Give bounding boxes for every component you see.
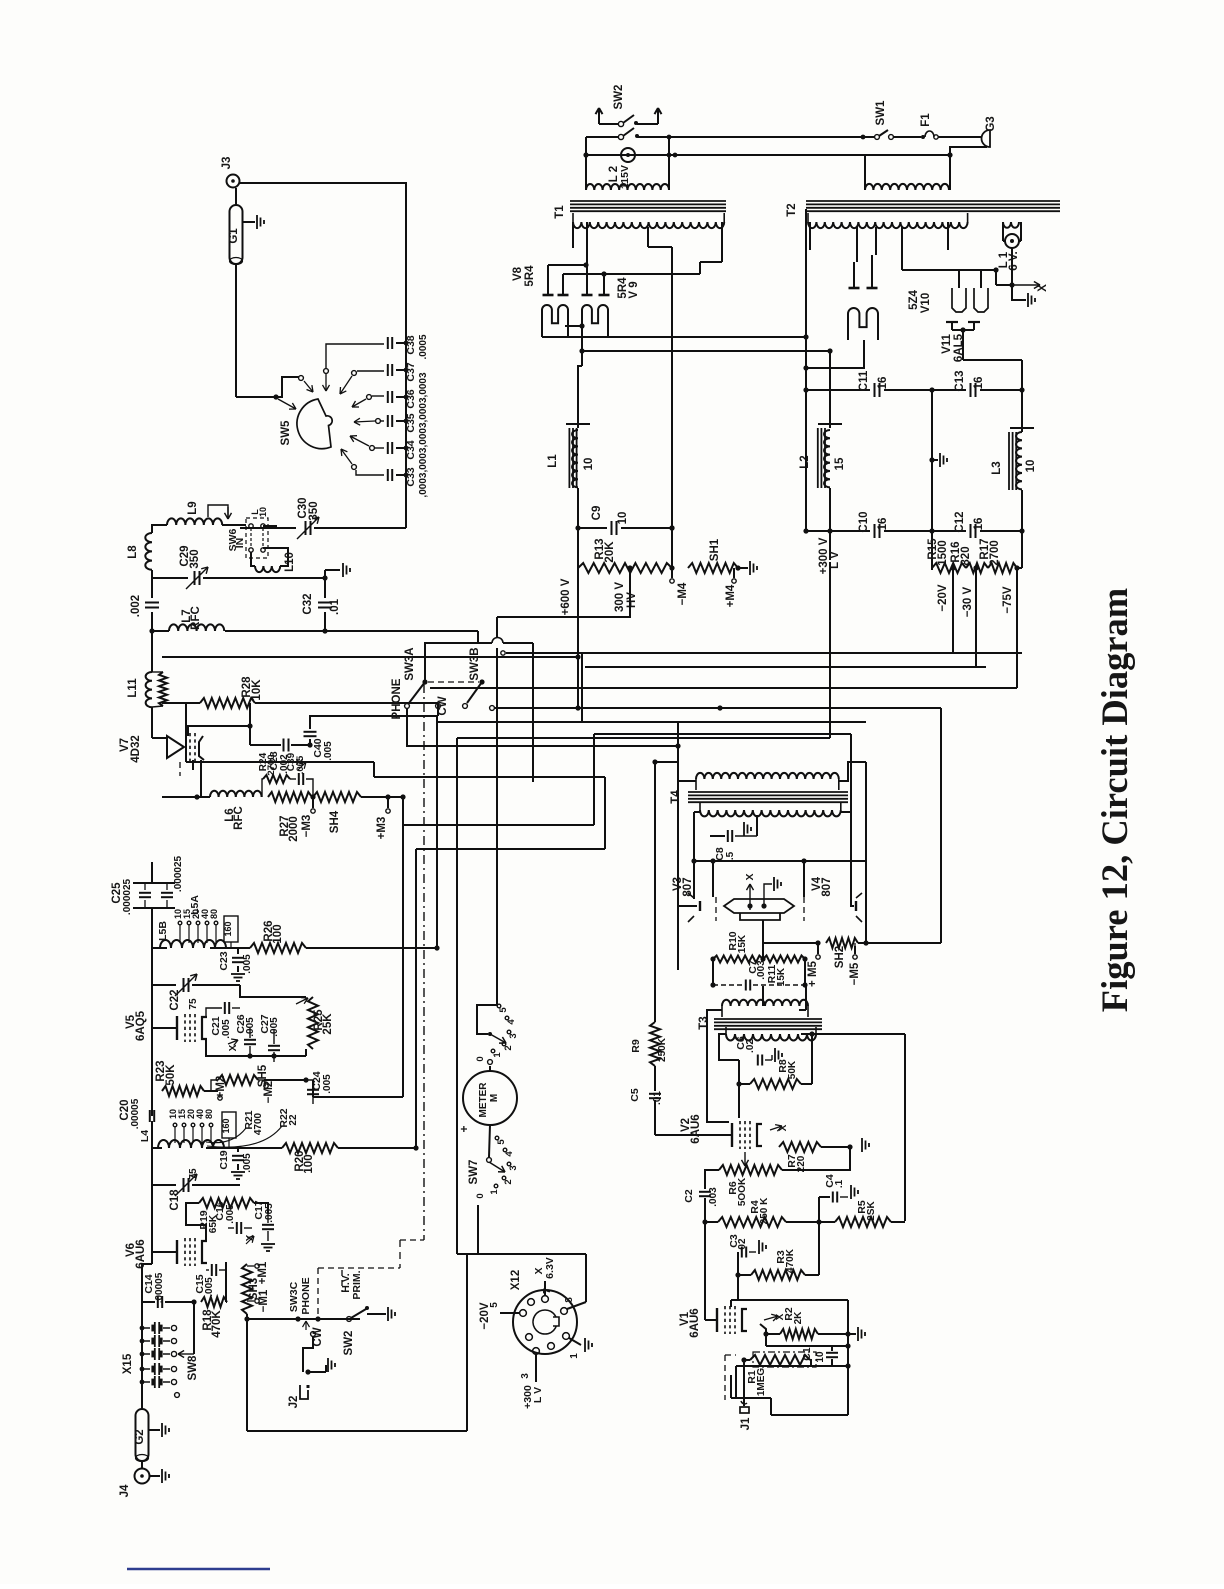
svg-text:L5A: L5A (189, 895, 201, 915)
wire SW7 to X12 box (477, 1205, 479, 1254)
capacitor C38 .0005 (387, 337, 389, 349)
meter M (463, 1071, 517, 1125)
ground near lamp (1012, 285, 1026, 300)
resistor R19 65K (199, 1198, 254, 1208)
variable capacitor C18 75 (151, 1148, 153, 1185)
capacitor C40 .005 (309, 739, 311, 745)
SW5 selector contact C36 (372, 395, 384, 397)
SW5 rotor input wires (236, 396, 276, 398)
transformer T1 primary (586, 184, 669, 190)
svg-text:3: 3 (508, 1033, 519, 1038)
wire SW6 to C30 line (263, 526, 276, 528)
svg-text:5Z4: 5Z4 (908, 289, 920, 309)
X12 pin7 6.3V lead (544, 1281, 546, 1295)
labels +600V 300V HV (577, 568, 579, 600)
V7 grid connections (188, 726, 250, 736)
capacitor C39 .005 (298, 773, 300, 785)
svg-text:5R4: 5R4 (524, 265, 536, 287)
svg-text:T1: T1 (554, 205, 566, 219)
svg-text:5: 5 (496, 1139, 507, 1145)
screen resistor R23 50K (162, 1086, 204, 1096)
svg-text:SW5: SW5 (280, 420, 292, 446)
svg-text:350: 350 (308, 501, 320, 520)
svg-text:−20V: −20V (479, 1302, 491, 1330)
svg-text:8: 8 (564, 1297, 575, 1303)
T3 core (714, 1018, 822, 1020)
svg-text:−M3: −M3 (301, 815, 313, 838)
svg-text:SH2: SH2 (834, 946, 846, 968)
resistor R24 2700 (263, 775, 290, 783)
svg-text:.00005: .00005 (130, 1098, 141, 1129)
V1 cathode to R2 (760, 1324, 766, 1346)
X arrow V1 (764, 1316, 778, 1320)
svg-text:+: + (457, 1125, 471, 1132)
svg-text:.005: .005 (242, 1153, 253, 1173)
fuse F1 (921, 135, 925, 139)
svg-text:L1: L1 (547, 454, 559, 468)
svg-text:L9: L9 (187, 501, 199, 514)
T4 core (688, 791, 848, 793)
svg-text:RFC: RFC (233, 806, 245, 830)
capacitor .002 (C31) (151, 578, 153, 598)
svg-text:SW1: SW1 (875, 100, 887, 126)
wire SH2 to bias rails (940, 708, 942, 943)
svg-text:6AU6: 6AU6 (689, 1308, 701, 1337)
svg-text:.000025: .000025 (122, 878, 133, 915)
svg-text:6 V.: 6 V. (1008, 251, 1020, 270)
svg-text:.01: .01 (329, 598, 341, 615)
variable capacitor C29 350 (152, 577, 188, 579)
svg-text:V8: V8 (512, 266, 524, 281)
svg-text:75: 75 (188, 1168, 199, 1180)
svg-text:V11: V11 (941, 333, 953, 353)
svg-text:PHONE: PHONE (391, 678, 403, 719)
V8/V9 cathode join (565, 325, 582, 327)
V1 cathode box right (847, 1300, 849, 1415)
jack J2 (303, 1337, 313, 1372)
SW7 upper wafer (488, 1060, 493, 1065)
bias bus y653 (501, 651, 505, 655)
transformer T1 core (570, 200, 726, 202)
svg-text:C32: C32 (302, 593, 314, 614)
V1 cathode box top (731, 1299, 848, 1301)
svg-text:10: 10 (583, 458, 595, 471)
svg-text:.005: .005 (323, 741, 334, 761)
svg-text:SH1: SH1 (709, 538, 721, 561)
V11 plate ties (958, 270, 960, 288)
svg-text:6.3V: 6.3V (544, 1257, 556, 1279)
capacitor C24 .005 (264, 1079, 306, 1081)
svg-text:C19: C19 (218, 1150, 230, 1169)
V10 cathode wire to L2 choke (806, 340, 864, 368)
ground J2 (305, 1369, 310, 1374)
keying bus left leg (246, 1319, 248, 1431)
svg-text:16: 16 (877, 518, 889, 531)
shunt SH3 (vertical) (242, 1264, 252, 1314)
svg-text:C35: C35 (405, 413, 417, 432)
feedback line from R5 (904, 1034, 906, 1221)
+300 LV bus y738 (457, 737, 830, 739)
capacitor C21 .005 (206, 1008, 222, 1018)
spare contact (175, 1393, 180, 1398)
svg-text:J3: J3 (221, 157, 233, 170)
svg-text:X: X (775, 1313, 786, 1320)
svg-text:4: 4 (506, 1019, 517, 1025)
connector G3 (982, 130, 990, 147)
V3/V4 cathode racetrack (724, 899, 794, 913)
switch SW2 lower pole (586, 136, 618, 138)
capacitor C16 .005 (236, 1222, 238, 1234)
SW5 selector contact C35 (381, 420, 384, 422)
PA plate choke L11 (151, 631, 153, 672)
wire J3 to tank (239, 183, 406, 343)
ground C29 bus (325, 569, 340, 571)
svg-text:L5B: L5B (157, 921, 169, 941)
wire 300V HV feed to meter line (497, 600, 630, 617)
svg-text:,0003,0003,0003,0003,0003: ,0003,0003,0003,0003,0003 (418, 372, 429, 498)
transformer T1 secondary (573, 222, 724, 228)
variable capacitor C30 350 (305, 521, 307, 535)
blue rule bottom left (127, 1568, 270, 1571)
ground G2 (149, 1429, 160, 1431)
svg-text:2K: 2K (793, 1311, 804, 1325)
svg-text:X: X (778, 1124, 789, 1131)
+300V LV rail (829, 488, 831, 560)
svg-text:.005: .005 (295, 755, 306, 774)
wire T1 HV secondary right leg down (671, 262, 673, 528)
svg-text:T3: T3 (698, 1016, 710, 1029)
svg-text:X15: X15 (122, 1353, 134, 1374)
wire SW3A common up (425, 631, 478, 682)
bottom bus wire (247, 1430, 467, 1432)
svg-text:R9: R9 (630, 1039, 642, 1053)
X12 pin3 +300 LV lead (535, 1354, 537, 1382)
rectifier V8 5R4 plates (543, 294, 554, 297)
svg-text:C36: C36 (405, 389, 417, 408)
shunt SH5 (218, 1075, 258, 1085)
crossover hop (478, 642, 492, 644)
svg-text:16: 16 (877, 377, 889, 390)
X12 pin5 -20V lead (500, 1312, 519, 1314)
L9 tap arrow (208, 505, 228, 517)
T1 secondary taps (572, 222, 574, 248)
ground center bus (929, 457, 934, 462)
svg-text:.00005: .00005 (154, 1272, 165, 1303)
svg-text:PRIM.: PRIM. (351, 1270, 363, 1299)
bias bus y688 (430, 687, 1017, 689)
svg-text:IN: IN (234, 538, 246, 549)
meter lead +M1 (247, 1265, 254, 1267)
wire L8 bottom to C29 (151, 570, 153, 578)
svg-text:1: 1 (569, 1353, 580, 1359)
transformer T3 primary (722, 1000, 808, 1006)
V2 cathode feedback riser (738, 1084, 740, 1118)
svg-text:+M3: +M3 (376, 817, 388, 840)
svg-text:+600 V: +600 V (560, 578, 572, 615)
svg-text:J4: J4 (119, 1484, 131, 1497)
svg-text:5: 5 (498, 1007, 509, 1013)
rectifier V10 filament (848, 308, 878, 340)
wire AC second bus (585, 137, 587, 190)
V1 plate to R4 node (737, 1275, 739, 1300)
svg-text:1500: 1500 (937, 540, 949, 566)
meter lead +M2 (218, 1096, 222, 1100)
svg-text:80: 80 (204, 1109, 214, 1119)
rectifier V11 6AL5 diodes (952, 288, 966, 312)
svg-text:−75V: −75V (1002, 586, 1014, 614)
svg-text:50K: 50K (787, 1060, 798, 1079)
filter choke L2 (818, 423, 842, 425)
svg-text:1: 1 (489, 1189, 500, 1195)
svg-text:T2: T2 (786, 203, 798, 216)
svg-text:C13: C13 (954, 370, 966, 391)
svg-text:.02: .02 (745, 1039, 756, 1053)
SH3 to keying bus (246, 1314, 248, 1319)
capacitor C15 .005 (211, 1264, 213, 1276)
meter lead -M3 (312, 797, 314, 808)
connector G2 (136, 1409, 149, 1461)
V2 grid wire (655, 1134, 723, 1136)
svg-text:SH4: SH4 (329, 810, 341, 833)
T2 secondary taps down (809, 222, 811, 250)
switch SW1 (861, 135, 866, 140)
svg-text:F1: F1 (920, 113, 932, 127)
svg-text:C33: C33 (405, 467, 417, 486)
capacitor C10 16 (803, 528, 808, 533)
T3 wiring (707, 1010, 729, 1122)
svg-text:X: X (1037, 284, 1049, 292)
SW5 selector contact C34 (375, 447, 384, 449)
bias divider R16 820 (966, 563, 988, 573)
svg-text:M: M (489, 1094, 500, 1102)
svg-text:0: 0 (475, 1193, 486, 1198)
svg-text:2: 2 (503, 1179, 514, 1184)
rectifier V9 5R4 plates (582, 294, 593, 297)
L5A taps (179, 925, 181, 943)
svg-text:6AQ5: 6AQ5 (135, 1010, 147, 1041)
svg-text:C10: C10 (858, 511, 870, 532)
svg-text:T4: T4 (670, 790, 682, 804)
svg-text:C34: C34 (405, 440, 417, 459)
SW5 selector contact C37 (357, 370, 384, 372)
staircase line y777 chain (373, 762, 375, 777)
shunt SH4 (313, 792, 361, 802)
svg-text:SW7: SW7 (468, 1160, 480, 1185)
contact CW SW3A (436, 704, 441, 709)
bias taps -20V -30V -75V (950, 565, 955, 570)
svg-text:15: 15 (834, 457, 846, 470)
svg-text:470K: 470K (785, 1248, 796, 1273)
staircase joins (652, 759, 657, 764)
svg-text:50K: 50K (165, 1064, 177, 1086)
svg-text:C12: C12 (954, 511, 966, 532)
svg-text:3: 3 (520, 1373, 531, 1379)
svg-text:G1: G1 (228, 228, 240, 244)
svg-text:RFC: RFC (190, 606, 202, 630)
svg-text:L11: L11 (127, 678, 139, 698)
svg-text:22: 22 (288, 1114, 299, 1126)
svg-text:PHONE: PHONE (300, 1277, 312, 1314)
ground J4 (150, 1475, 160, 1477)
X12 accessory socket outline (467, 1253, 586, 1255)
svg-text:.005: .005 (204, 1277, 215, 1297)
X12 pins (563, 1333, 570, 1340)
svg-text:75: 75 (188, 998, 199, 1010)
svg-text:−M2: −M2 (263, 1081, 275, 1104)
capacitor C12 16 (932, 530, 966, 532)
X12 pin8 lead (567, 1302, 586, 1309)
svg-text:470K: 470K (211, 1310, 223, 1338)
tap box 160 (224, 916, 238, 942)
svg-text:4700: 4700 (253, 1112, 264, 1135)
capacitor C34 .0003 (387, 442, 389, 454)
tube V7 4D32 (167, 736, 184, 758)
pilot lamp L1 6V (1002, 222, 1004, 241)
svg-text:80: 80 (209, 909, 219, 919)
resistor R13 20K (578, 563, 672, 573)
svg-text:.5: .5 (725, 851, 736, 860)
wire phone contact to T4 line (407, 709, 678, 746)
wire SW3B to CW bus (490, 706, 495, 711)
tap box 160 L4 (222, 1112, 236, 1138)
meter lead -M2 (264, 1084, 268, 1088)
svg-text:+M4: +M4 (725, 584, 737, 607)
svg-text:−20V: −20V (937, 584, 949, 612)
svg-text:10: 10 (258, 507, 268, 517)
svg-text:X: X (228, 1044, 239, 1051)
bias divider R15 1500 (931, 531, 933, 568)
coil L9 (160, 524, 167, 526)
capacitor C23 .005 (210, 947, 238, 949)
svg-text:4D32: 4D32 (130, 735, 142, 763)
rectifier V8 filament (542, 305, 568, 337)
svg-text:L V: L V (532, 1387, 544, 1403)
X arrow from lamp (1011, 248, 1013, 285)
shield return line (736, 1365, 848, 1367)
svg-text:807: 807 (821, 877, 833, 896)
svg-text:−M1: −M1 (258, 1289, 270, 1312)
svg-text:−M4: −M4 (677, 582, 689, 605)
svg-text:2000: 2000 (288, 816, 300, 842)
svg-text:C37: C37 (405, 362, 417, 381)
svg-text:0: 0 (475, 1056, 486, 1061)
capacitor C32 .01 (324, 578, 326, 598)
svg-text:2: 2 (503, 1045, 514, 1050)
svg-text:6AU6: 6AU6 (690, 1114, 702, 1143)
svg-text:C11: C11 (858, 370, 870, 391)
pilot lamp L2 115V (621, 148, 635, 162)
svg-text:160: 160 (221, 1118, 231, 1133)
wire G1 down to SW5 (235, 264, 237, 397)
V6 plate wiring (254, 1203, 268, 1213)
svg-text:25K: 25K (322, 1013, 334, 1035)
transformer T2 core (806, 200, 1060, 202)
capacitor C9 10 (578, 527, 607, 529)
transformer T2 primary (865, 184, 949, 190)
filter choke L1 (plate supply) (578, 366, 582, 428)
coil L4 with taps (151, 1121, 153, 1148)
ground SH1 (749, 561, 751, 575)
wire AC top bus (637, 136, 874, 138)
meter leads M5 (817, 943, 819, 954)
transformer T4 primary (677, 722, 679, 970)
svg-text:10: 10 (617, 512, 629, 525)
capacitor C26 .005 (244, 1039, 256, 1041)
svg-text:350: 350 (189, 549, 201, 568)
svg-text:3: 3 (508, 1165, 519, 1170)
svg-text:.005: .005 (245, 1017, 256, 1037)
svg-text:10: 10 (815, 1351, 826, 1363)
svg-text:.003: .003 (756, 960, 767, 980)
svg-text:15K: 15K (776, 967, 787, 986)
bias divider R17 2700 (988, 563, 1017, 573)
meter lead -M1 (247, 1300, 254, 1302)
wire L11 to V7 plate (151, 707, 153, 738)
svg-text:5OOK: 5OOK (737, 1177, 748, 1206)
capacitor C25 .000025 pair (151, 862, 153, 883)
CW keying bus (720, 707, 941, 709)
svg-text:C18: C18 (169, 1189, 181, 1211)
svg-text:2700: 2700 (266, 754, 277, 775)
transformer T2 secondary (808, 222, 968, 228)
SW5 selector contact C33 (356, 470, 384, 475)
svg-text:G3: G3 (985, 116, 997, 131)
jack J3 (227, 175, 240, 188)
svg-text:L4: L4 (139, 1130, 151, 1142)
contact CW (keying) (311, 1332, 316, 1337)
X arrow V5 cathode (228, 1040, 238, 1044)
filament line y351 (579, 348, 584, 353)
choke L6 RFC (194, 794, 199, 799)
svg-text:4: 4 (504, 1151, 515, 1157)
svg-text:V10: V10 (920, 293, 932, 313)
G3 return lead (950, 147, 987, 155)
center ground bus (929, 387, 934, 392)
svg-text:100: 100 (303, 1154, 315, 1173)
wire +600V run down-left (577, 600, 579, 708)
rotary switch SW5 wafer (297, 399, 332, 449)
svg-text:−30 V: −30 V (962, 586, 974, 617)
switch SW6 IN (222, 524, 246, 526)
svg-text:Figure 12, Circuit Diagram: Figure 12, Circuit Diagram (1094, 588, 1135, 1012)
screen bus line y861 (694, 860, 866, 862)
T3 secondary (726, 1034, 816, 1041)
svg-text:SW3B: SW3B (469, 647, 481, 680)
svg-text:J2: J2 (288, 1396, 300, 1409)
svg-text:SW8: SW8 (187, 1355, 199, 1381)
X arrow racetrack (749, 884, 751, 910)
capacitor C13 16 (932, 389, 966, 391)
racetrack output to SH2 (763, 920, 818, 943)
svg-text:.005: .005 (221, 1019, 232, 1039)
J1 shield box (730, 1375, 732, 1398)
wire C22 to R25 (240, 985, 306, 997)
SW5 selector contact C38 (326, 344, 384, 368)
screen bus y722 (437, 721, 866, 723)
coil L8 (152, 525, 160, 533)
staircase line y734 to T4 secondary (594, 733, 851, 735)
wire X15 to G2 (141, 1395, 143, 1409)
svg-text:V 9: V 9 (628, 281, 640, 298)
switch SW2 keying (347, 1317, 352, 1322)
svg-text:.005: .005 (264, 1203, 275, 1223)
wire T2 center tap down (805, 209, 807, 390)
resistor R25 25K (vertical) (296, 998, 308, 1004)
svg-text:SW3A: SW3A (404, 647, 416, 680)
svg-text:.1: .1 (834, 1179, 845, 1188)
svg-text:10: 10 (1025, 460, 1037, 473)
capacitor C33 .0003 (387, 469, 389, 481)
